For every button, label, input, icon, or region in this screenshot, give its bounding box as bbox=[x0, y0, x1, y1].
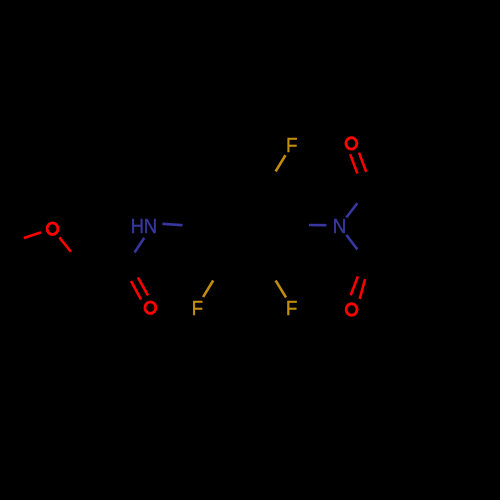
wire: bond O to CH2 (carbon half, black) bbox=[71, 252, 83, 266]
wire: bond N-H to ring C1 (carbon half, black) bbox=[183, 225, 198, 228]
wire: bond ring C5 to F (carbon half, black) bbox=[267, 171, 276, 186]
wire: bond ring C3 to F (carbon half, black) bbox=[267, 267, 276, 281]
wire: bond amide C to N-H (carbon half, black) bbox=[127, 253, 135, 268]
svg-text:N: N bbox=[333, 216, 347, 238]
atom label O (amide carbonyl oxygen) bbox=[145, 302, 156, 313]
wire: bond ring C4 to imide N (carbon half, black) bbox=[292, 224, 309, 227]
wire: bottom C=O double bond (carbon halves, black) bbox=[358, 264, 369, 277]
atom label O (methoxy oxygen) bbox=[47, 223, 58, 234]
svg-text:HN: HN bbox=[131, 216, 157, 238]
atom label O (imide top carbonyl oxygen) bbox=[346, 138, 357, 149]
wire: imide N to top carbonyl C (nitrogen half, blue) bbox=[346, 203, 357, 217]
wire: imide N to bottom carbonyl C (nitrogen half, blue) bbox=[346, 235, 357, 250]
wire: F to ring C2 (fluorine half, orange) bbox=[203, 280, 213, 297]
wire: methoxy O to CH3 (oxygen half, red) bbox=[24, 232, 41, 238]
wire: F to ring C3 (fluorine half, orange) bbox=[276, 281, 286, 298]
wire: amide N-H to ring C1 (nitrogen half, blue) bbox=[162, 224, 182, 225]
wire: F to ring C5 (fluorine half, orange) bbox=[276, 155, 286, 171]
wire: imide bottom C=O line 2 (oxygen half, red) bbox=[360, 279, 365, 299]
wire: amide N-H to carbonyl C (nitrogen half, blue) bbox=[135, 238, 145, 253]
red bonds bbox=[24, 153, 366, 300]
orange bonds bbox=[203, 155, 286, 297]
wire: imide N to top carbonyl C (carbon half, black) bbox=[357, 189, 368, 203]
wire: bond CH3 to O (carbon half, black) bbox=[7, 238, 24, 244]
wire: top C=O double bond (carbon halves, black) bbox=[357, 173, 368, 188]
svg-text:F: F bbox=[192, 298, 204, 320]
wire: bond CH2 to amide C bbox=[83, 266, 127, 267]
wire: imide N to bottom carbonyl C (carbon half, black) bbox=[357, 249, 368, 263]
wire: bond ring C2 to F (carbon half, black) bbox=[213, 267, 222, 281]
wire: imide N to ring C4 (nitrogen half, blue) bbox=[309, 224, 326, 227]
wire: imide bottom C=O line 1 (oxygen half, red) bbox=[351, 276, 358, 295]
blue bonds bbox=[135, 203, 358, 252]
wire: imide top C=O line 2 (oxygen half, red) bbox=[359, 153, 366, 172]
svg-text:F: F bbox=[286, 135, 298, 157]
wire: benzene ring bonds (black) bbox=[197, 186, 292, 267]
wire: methoxy O to CH2 (oxygen half, red) bbox=[59, 237, 71, 251]
svg-text:F: F bbox=[286, 298, 298, 320]
wire: fused cyclohexane ring (black, invisible) bbox=[369, 189, 415, 264]
atom label O (imide bottom carbonyl oxygen) bbox=[346, 304, 357, 315]
wire: amide C=O double bond line 2 (oxygen half, red) bbox=[138, 278, 148, 296]
wire: amide C=O double bond (carbon halves, black) bbox=[127, 267, 132, 281]
wire: amide C=O double bond line 1 (oxygen half, red) bbox=[131, 281, 141, 300]
wire: imide top C=O line 1 (oxygen half, red) bbox=[350, 154, 357, 173]
